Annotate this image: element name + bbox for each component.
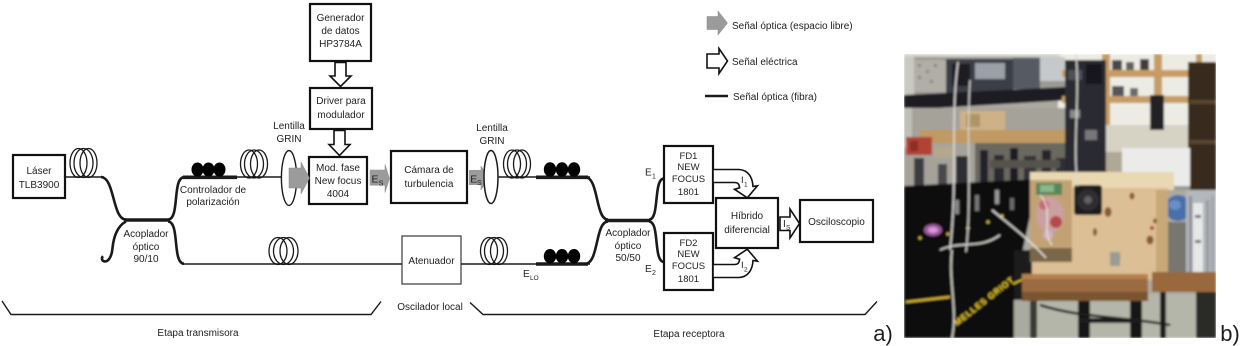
GRIN lens 2 ellipse bbox=[484, 151, 498, 204]
label Controlador de polarizacion bbox=[180, 185, 247, 208]
box Driver para modulador bbox=[310, 88, 372, 129]
svg-text:Cámara de: Cámara de bbox=[404, 165, 454, 176]
svg-text:New focus: New focus bbox=[315, 176, 362, 187]
svg-text:Lentilla: Lentilla bbox=[273, 121, 305, 132]
coupler 90/10 upper output curve bbox=[168, 177, 184, 219]
legend fiber line bbox=[705, 92, 817, 103]
svg-text:b): b) bbox=[1220, 321, 1240, 346]
svg-text:4004: 4004 bbox=[327, 189, 350, 200]
svg-text:FOCUS: FOCUS bbox=[672, 261, 705, 272]
svg-text:S: S bbox=[379, 181, 384, 188]
svg-text:Osciloscopio: Osciloscopio bbox=[808, 217, 865, 228]
node E1 bbox=[645, 168, 656, 181]
label Es after turbulence chamber bbox=[469, 166, 489, 190]
coupler 50/50 upper input curve bbox=[585, 177, 608, 220]
polarization controller bar bbox=[183, 176, 237, 180]
photo: top shelf equipment bbox=[904, 57, 1065, 98]
box FD1 NEW FOCUS 1801 bbox=[664, 146, 713, 203]
coupler 50/50 lower output curve bbox=[649, 221, 664, 262]
electrical signal arrow Generador to Driver bbox=[330, 63, 351, 87]
svg-text:Atenuador: Atenuador bbox=[408, 256, 455, 267]
current arrow I1 FD1 to hybrid bbox=[713, 170, 758, 198]
svg-text:50/50: 50/50 bbox=[615, 253, 640, 264]
coupler 50/50 lower input curve bbox=[585, 221, 608, 264]
node E2 bbox=[645, 264, 656, 277]
svg-text:FOCUS: FOCUS bbox=[672, 174, 705, 185]
wire attenuator to coupler bbox=[461, 263, 590, 265]
coupler 50/50 waist bbox=[605, 219, 651, 222]
fiber coil after attenuator bbox=[481, 238, 508, 265]
svg-text:S: S bbox=[786, 225, 791, 232]
svg-text:TLB3900: TLB3900 bbox=[19, 180, 60, 191]
label Es output of modulator bbox=[370, 165, 390, 193]
svg-text:Lentilla: Lentilla bbox=[476, 123, 508, 134]
electrical signal arrow Driver to Mod fase bbox=[329, 131, 350, 156]
photo: cables bbox=[1040, 305, 1170, 325]
fiber coil lower branch bbox=[269, 238, 298, 265]
polarization bar lower receiver bbox=[536, 262, 588, 266]
svg-text:HP3784A: HP3784A bbox=[319, 39, 362, 50]
polarization dots upper receiver bbox=[544, 162, 580, 176]
svg-text:Mod. fase: Mod. fase bbox=[316, 163, 360, 174]
svg-text:Acoplador: Acoplador bbox=[605, 228, 651, 239]
svg-text:1801: 1801 bbox=[678, 187, 699, 198]
photo: mid-left wall bbox=[904, 108, 1065, 190]
svg-text:Señal eléctrica: Señal eléctrica bbox=[732, 57, 798, 68]
svg-text:a): a) bbox=[873, 321, 893, 346]
label Lentilla GRIN 1 bbox=[273, 121, 305, 145]
fiber coil after laser bbox=[70, 149, 97, 178]
fiber coil after GRIN lens 2 bbox=[504, 150, 531, 178]
wire laser output bbox=[65, 176, 104, 178]
svg-text:GRIN: GRIN bbox=[480, 136, 505, 147]
svg-text:turbulencia: turbulencia bbox=[405, 179, 454, 190]
coupler 90/10 input curve bbox=[101, 177, 126, 220]
photo: right bench bbox=[1152, 272, 1216, 292]
coupler 50/50 upper output curve bbox=[649, 179, 664, 220]
legend free-space optical arrow bbox=[707, 11, 853, 35]
photo: floor bbox=[1030, 294, 1216, 338]
photo: plywood box bbox=[1030, 172, 1174, 190]
polarization dots lower receiver bbox=[544, 249, 580, 263]
polarization bar upper receiver bbox=[536, 176, 588, 180]
svg-text:Láser: Láser bbox=[26, 166, 52, 177]
fiber coil before GRIN lens 1 bbox=[241, 150, 268, 178]
svg-text:Generador: Generador bbox=[317, 13, 365, 24]
current arrow I2 FD2 to hybrid bbox=[713, 249, 758, 277]
svg-text:Híbrido: Híbrido bbox=[731, 211, 764, 222]
svg-text:1801: 1801 bbox=[678, 274, 699, 285]
box Osciloscopio bbox=[800, 200, 873, 242]
photo: blue horn bbox=[1168, 222, 1186, 292]
svg-text:Acoplador: Acoplador bbox=[123, 229, 169, 240]
svg-text:Etapa transmisora: Etapa transmisora bbox=[157, 328, 239, 339]
wire upper receiver path bbox=[498, 176, 590, 178]
lower branch wire from coupler to attenuator bbox=[182, 263, 402, 265]
GRIN lens 1 ellipse bbox=[281, 151, 296, 206]
svg-text:de datos: de datos bbox=[321, 26, 359, 37]
photo: right dark cabinet bbox=[1188, 62, 1216, 190]
svg-text:modulador: modulador bbox=[317, 110, 365, 121]
svg-text:90/10: 90/10 bbox=[133, 254, 158, 265]
photo: optical table top bbox=[904, 179, 1038, 254]
wire upper path to modulator bbox=[182, 176, 283, 178]
photo: shelf board bbox=[904, 87, 1070, 110]
box FD2 NEW FOCUS 1801 bbox=[664, 233, 713, 290]
svg-text:2: 2 bbox=[744, 267, 748, 274]
coupler 90/10 waist bbox=[124, 218, 170, 221]
svg-text:Controlador de: Controlador de bbox=[180, 185, 247, 196]
brace etapa transmisora bbox=[2, 301, 381, 315]
svg-text:E: E bbox=[523, 269, 530, 280]
svg-text:óptico: óptico bbox=[615, 241, 642, 252]
svg-text:2: 2 bbox=[652, 270, 656, 277]
free-space optical arrow into modulator bbox=[289, 162, 310, 194]
legend electrical arrow bbox=[707, 49, 798, 74]
svg-text:E: E bbox=[645, 168, 652, 179]
photo: stool bbox=[1022, 274, 1148, 292]
photo: mid right rack and counter bbox=[1065, 60, 1106, 190]
box Mod. fase New focus 4004 bbox=[309, 157, 367, 204]
svg-text:1: 1 bbox=[744, 182, 748, 189]
photo: box left face electronics bbox=[1030, 180, 1072, 262]
box Hibrido diferencial bbox=[716, 198, 778, 248]
coupler 90/10 lower output curve bbox=[168, 222, 184, 264]
svg-text:óptico: óptico bbox=[133, 242, 160, 253]
photo: optical table front with MELLES GRIOT bbox=[904, 252, 1016, 338]
box Camara de turbulencia bbox=[391, 151, 467, 203]
svg-text:1: 1 bbox=[652, 174, 656, 181]
node ELO bbox=[523, 269, 539, 282]
svg-text:NEW: NEW bbox=[677, 162, 699, 173]
svg-text:NEW: NEW bbox=[677, 249, 699, 260]
label Lentilla GRIN 2 bbox=[476, 123, 508, 147]
box Laser TLB3900 bbox=[13, 155, 65, 198]
photo: fan bbox=[1074, 185, 1102, 215]
svg-text:polarización: polarización bbox=[186, 197, 239, 208]
svg-text:S: S bbox=[477, 180, 482, 187]
box Atenuador bbox=[402, 236, 461, 284]
svg-text:E: E bbox=[645, 264, 652, 275]
svg-text:Oscilador local: Oscilador local bbox=[397, 302, 463, 313]
label Acoplador optico 90/10 bbox=[123, 229, 169, 265]
electrical arrow hybrid to oscilloscope with label Is bbox=[780, 209, 800, 238]
svg-text:Etapa receptora: Etapa receptora bbox=[653, 329, 725, 340]
polarization controller paddle dots bbox=[192, 163, 226, 177]
photo: right shelving unit bbox=[1102, 54, 1110, 154]
svg-text:diferencial: diferencial bbox=[724, 225, 770, 236]
box Generador de datos HP3784A bbox=[310, 4, 371, 61]
coupler 90/10 unused port curve bbox=[102, 222, 126, 262]
svg-text:Driver para: Driver para bbox=[316, 96, 366, 107]
svg-text:Señal óptica (fibra): Señal óptica (fibra) bbox=[733, 92, 817, 103]
svg-text:FD1: FD1 bbox=[680, 151, 698, 162]
svg-text:GRIN: GRIN bbox=[277, 134, 302, 145]
brace etapa receptora bbox=[470, 302, 877, 315]
svg-text:FD2: FD2 bbox=[680, 238, 698, 249]
photograph of experimental setup bbox=[0, 0, 1, 1]
svg-text:LO: LO bbox=[530, 275, 539, 282]
photo: right metal panel bbox=[1186, 190, 1216, 292]
svg-text:E: E bbox=[372, 174, 379, 186]
label Acoplador optico 50/50 bbox=[605, 228, 651, 264]
svg-text:Señal óptica (espacio libre): Señal óptica (espacio libre) bbox=[732, 21, 853, 32]
